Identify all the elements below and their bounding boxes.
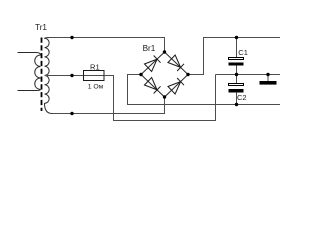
wire: through resistor R1 body [83,75,104,77]
diode top-left (anode left node, cathode top node) [144,55,160,71]
capacitor C2 bottom lead [236,92,238,104]
svg-text:Tr1: Tr1 [35,23,47,32]
node: secondary centre tap terminal dot [70,74,73,77]
wire: secondary top end to bridge top node [49,38,165,53]
svg-text:C1: C1 [238,48,248,57]
wire: middle 0V rail to right edge [216,74,281,76]
node: bridge left junction [139,73,142,76]
wire: bridge minus node down to negative rail [128,75,281,105]
wire: R1 output down and across to 0V riser [104,75,216,121]
node: bridge right junction [186,73,189,76]
node: secondary bottom terminal dot [70,112,73,115]
transformer Tr1 primary winding [18,53,41,91]
capacitor C2 negative plate [229,89,244,93]
capacitor C1 bottom lead [236,66,238,75]
diode top-right (anode top node, cathode right node) [168,55,184,71]
node: secondary top terminal dot [70,36,73,39]
capacitor C2 positive plate [229,84,244,86]
capacitor C1 positive plate [229,58,244,60]
capacitor C1 negative plate [229,63,244,66]
svg-text:Br1: Br1 [143,44,156,53]
capacitor C3 plate bar [260,81,277,85]
capacitor C1 top lead [236,38,238,58]
bridge rectifier Br1 diamond [141,52,188,97]
node: bridge top junction [163,50,166,53]
node: C1/C2 junction on 0V rail [235,73,238,76]
transformer Tr1 secondary winding [45,38,53,114]
wire: bridge plus node up to positive rail [188,38,280,75]
diode bottom-right (anode bottom node, cathode right node) [168,78,184,94]
node: bridge bottom junction [163,95,166,98]
node: C3 junction on 0V rail [266,73,269,76]
capacitor C3 lead from 0V rail [267,75,269,82]
node: C2 bottom junction on negative rail [235,103,238,106]
capacitor C2 top lead [236,75,238,84]
wire: secondary centre tap to resistor R1 [45,75,84,77]
svg-text:1 Ом: 1 Ом [88,83,104,90]
wire: secondary bottom end to bridge bottom node [52,97,165,114]
svg-text:C2: C2 [237,93,247,102]
svg-text:R1: R1 [90,62,100,71]
diode bottom-left (anode left node, cathode bottom node) [144,78,160,94]
resistor R1 [84,71,105,81]
transformer Tr1 core [41,38,43,112]
node: C1 top junction on positive rail [235,36,238,39]
